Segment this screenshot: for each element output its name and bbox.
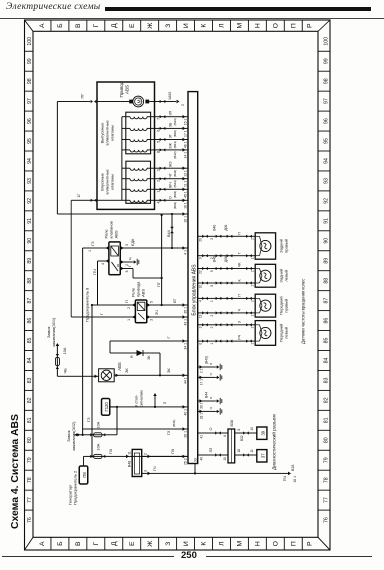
svg-text:99: 99	[27, 58, 33, 64]
wire Г120 to control unit pin 40	[110, 406, 188, 408]
svg-text:Предохранитель 2: Предохранитель 2	[73, 470, 78, 505]
solenoid coil L1	[130, 150, 147, 152]
ground G3	[215, 376, 217, 378]
svg-text:ABS: ABS	[114, 230, 119, 238]
svg-text:Е: Е	[129, 23, 136, 28]
svg-text:М: М	[237, 23, 244, 29]
wire sensor B3 lead 2	[198, 282, 256, 284]
svg-text:З: З	[165, 542, 172, 546]
svg-text:81: 81	[324, 417, 330, 423]
svg-text:Н: Н	[255, 541, 262, 546]
svg-text:9: 9	[199, 257, 203, 259]
svg-text:84: 84	[27, 357, 33, 363]
svg-text:1: 1	[88, 250, 92, 252]
svg-text:ЧГ: ЧГ	[169, 173, 173, 177]
wire sensor B3 lead 1	[198, 268, 256, 270]
svg-text:В38: В38	[230, 420, 234, 426]
svg-text:В44: В44	[205, 392, 209, 398]
svg-text:ЕГ: ЕГ	[173, 298, 177, 303]
wire valve relay pin 2 to ground	[120, 261, 132, 263]
svg-text:84: 84	[324, 357, 330, 363]
svg-text:РЧ: РЧ	[238, 334, 242, 339]
svg-text:44 1: 44 1	[184, 377, 188, 384]
solenoid coil L5	[130, 200, 147, 202]
svg-text:ЗК: ЗК	[166, 368, 171, 373]
ground G2	[215, 366, 217, 368]
wire 1Г rail to pump relay pin 1	[71, 316, 135, 318]
svg-text:ПГ: ПГ	[80, 93, 85, 99]
svg-text:ч: ч	[209, 407, 213, 409]
svg-text:К: К	[201, 542, 208, 546]
svg-text:100: 100	[324, 37, 330, 46]
svg-text:2: 2	[157, 180, 161, 182]
svg-text:Ж: Ж	[147, 540, 154, 547]
wire ГЗ branch to control unit pin 26	[83, 428, 188, 430]
solenoid coil L3	[130, 128, 147, 130]
wheel speed sensor B4 (Задний правый)	[255, 233, 275, 259]
svg-text:8: 8	[237, 429, 241, 431]
wire ПЧ to valve relay pin 4	[98, 260, 109, 262]
wire В38 to connector 37	[235, 454, 257, 456]
svg-text:Е: Е	[129, 541, 136, 546]
svg-text:В32: В32	[240, 435, 244, 441]
wire solenoid L2 to pin	[147, 139, 188, 141]
svg-text:ч: ч	[209, 363, 213, 365]
ground G1	[132, 261, 134, 263]
svg-text:Схема 4. Система ABS: Схема 4. Система ABS	[10, 414, 21, 529]
svg-text:А: А	[39, 541, 46, 546]
wire О control unit pin 41 to В38	[198, 432, 228, 434]
svg-text:правый: правый	[283, 299, 288, 313]
svg-text:3: 3	[144, 470, 148, 472]
wheel speed sensor B3 (Задний левый)	[255, 264, 275, 287]
svg-text:34 1: 34 1	[184, 343, 188, 350]
svg-text:16 1: 16 1	[184, 202, 188, 209]
wire Ч to ground G2	[198, 366, 215, 368]
svg-text:11: 11	[250, 449, 254, 453]
svg-text:ЗП: ЗП	[169, 110, 173, 115]
svg-text:13 1: 13 1	[184, 170, 188, 177]
svg-text:А: А	[39, 23, 46, 28]
svg-text:78: 78	[324, 477, 330, 483]
svg-text:клапаны: клапаны	[110, 174, 115, 190]
solenoid coil L4	[130, 117, 147, 119]
svg-text:3: 3	[210, 238, 214, 240]
wire ПЧ В48 to control unit pin 25	[142, 455, 188, 457]
wire ПГ pump feed	[91, 100, 97, 103]
svg-text:В44: В44	[167, 230, 171, 237]
svg-text:4 1: 4 1	[184, 250, 188, 255]
svg-text:4: 4	[157, 202, 161, 204]
svg-text:1: 1	[157, 191, 161, 193]
solenoid coil L8	[130, 168, 147, 170]
svg-text:Д: Д	[111, 541, 118, 546]
page header	[6, 2, 101, 12]
svg-text:ПЧ: ПЧ	[92, 269, 97, 275]
svg-text:ГЗ: ГЗ	[90, 241, 95, 246]
svg-text:99: 99	[324, 58, 330, 64]
wire solenoid L7 to pin	[147, 178, 188, 180]
wire Ч to ground G3	[198, 376, 215, 378]
svg-text:10А: 10А	[97, 421, 101, 428]
svg-text:96: 96	[324, 118, 330, 124]
wire sensor B4 lead 1	[198, 235, 256, 237]
svg-text:91: 91	[27, 218, 33, 224]
svg-text:90: 90	[324, 238, 330, 244]
wire valve relay pin 3 to control unit pin 4	[120, 247, 188, 249]
svg-text:И: И	[183, 541, 190, 546]
svg-text:К стоп-: К стоп-	[135, 394, 139, 407]
connector В48	[132, 449, 142, 476]
svg-text:ЧБ: ЧБ	[63, 368, 68, 374]
pump motor M1	[133, 96, 144, 107]
wire solenoid L5 to pin	[147, 199, 188, 201]
svg-text:ЗБ: ЗБ	[169, 122, 173, 127]
wire П to pump relay pin 2	[92, 304, 135, 306]
wire pump relay pin 5 to control unit pin 35	[147, 304, 188, 306]
svg-text:Ч: Ч	[238, 308, 242, 311]
wire sensor B4 lead 2	[198, 255, 256, 257]
svg-text:Г: Г	[93, 542, 100, 546]
svg-text:11 1: 11 1	[184, 181, 188, 187]
wire Ч to ground G5	[198, 410, 215, 412]
svg-text:16 1: 16 1	[293, 476, 297, 483]
svg-text:(В43): (В43)	[172, 420, 176, 427]
fuse F3 10А	[90, 455, 105, 458]
svg-text:11: 11	[128, 451, 132, 455]
svg-text:З: З	[238, 321, 242, 323]
svg-text:80: 80	[324, 437, 330, 443]
wire ГЧ В48 to diagnostic В18	[142, 472, 288, 474]
fuse 8 feed label (Предохранитель 8)	[82, 248, 84, 435]
svg-text:2: 2	[210, 326, 214, 328]
svg-text:О: О	[273, 23, 280, 28]
svg-text:зажигания(3G1): зажигания(3G1)	[51, 317, 56, 347]
svg-text:Предохранитель 8: Предохранитель 8	[85, 287, 90, 322]
svg-text:1: 1	[127, 319, 131, 321]
svg-text:(В43): (В43)	[205, 356, 209, 364]
ground G4	[215, 400, 217, 402]
diode VD1	[137, 350, 144, 356]
svg-text:17 1: 17 1	[184, 130, 188, 137]
svg-text:ЖЧ: ЖЧ	[169, 182, 173, 188]
svg-text:1: 1	[210, 343, 214, 345]
svg-text:91: 91	[324, 218, 330, 224]
ABS actuator box (Привод ABS)	[97, 82, 155, 209]
svg-text:ЗГ: ЗГ	[169, 134, 173, 138]
svg-text:ABS: ABS	[117, 362, 122, 371]
fusible link П8	[79, 466, 88, 484]
fuse F1 10А	[56, 354, 59, 369]
svg-text:ГЧ: ГЧ	[153, 466, 157, 471]
svg-text:О: О	[209, 428, 213, 431]
svg-text:39 1: 39 1	[200, 402, 204, 408]
svg-text:5: 5	[125, 270, 129, 272]
svg-text:2: 2	[127, 307, 131, 309]
svg-text:Г: Г	[166, 336, 171, 339]
svg-text:37: 37	[261, 453, 266, 458]
svg-text:97: 97	[324, 98, 330, 104]
svg-text:95: 95	[27, 138, 33, 144]
svg-text:В18: В18	[291, 465, 295, 471]
svg-text:79: 79	[27, 457, 33, 463]
svg-text:87: 87	[27, 298, 33, 304]
svg-text:Л: Л	[219, 541, 226, 545]
svg-text:22: 22	[199, 270, 203, 274]
svg-text:В: В	[75, 23, 82, 28]
diagnostic connector В38	[228, 429, 235, 463]
svg-text:3: 3	[150, 319, 154, 321]
svg-text:94: 94	[324, 158, 330, 164]
svg-text:93: 93	[324, 178, 330, 184]
svg-text:Г120: Г120	[104, 402, 109, 412]
svg-text:ЗК: ЗК	[147, 355, 151, 360]
svg-text:16 1: 16 1	[184, 216, 188, 223]
svg-text:О: О	[273, 541, 280, 546]
svg-text:2: 2	[210, 314, 214, 316]
svg-text:89: 89	[324, 258, 330, 264]
wire sensor B1 lead 2	[198, 340, 256, 342]
svg-text:ЗК: ЗК	[124, 368, 129, 373]
svg-text:В48: В48	[128, 461, 132, 467]
svg-text:4: 4	[199, 300, 203, 302]
svg-text:83: 83	[324, 377, 330, 383]
svg-text:ЗЧ: ЗЧ	[155, 310, 159, 315]
svg-text:Г: Г	[238, 252, 242, 254]
svg-text:Диагностический разъем: Диагностический разъем	[271, 414, 278, 470]
svg-text:1Г: 1Г	[77, 194, 81, 198]
svg-text:ЛЗ: ЛЗ	[209, 447, 213, 452]
svg-text:88: 88	[324, 278, 330, 284]
svg-text:8: 8	[157, 151, 161, 153]
frame corner diagonals	[25, 20, 331, 550]
svg-text:сигналам: сигналам	[140, 390, 144, 407]
svg-text:3: 3	[125, 244, 129, 246]
border frame inner rectangle	[33, 31, 318, 537]
svg-text:M: M	[136, 99, 141, 103]
svg-text:82: 82	[324, 397, 330, 403]
svg-text:2 1: 2 1	[200, 368, 204, 373]
svg-text:З: З	[165, 24, 172, 28]
svg-text:В46: В46	[213, 225, 217, 231]
wire Г valve relay pin 5 to ПГ branch	[120, 268, 133, 270]
svg-text:Г: Г	[100, 313, 104, 315]
svg-text:18: 18	[237, 449, 241, 453]
svg-text:96: 96	[27, 118, 33, 124]
svg-text:Н: Н	[255, 23, 262, 28]
svg-text:76: 76	[27, 517, 33, 523]
ABS control unit U1 (Блок управления ABS)	[188, 92, 198, 464]
connector Г120	[102, 399, 110, 416]
svg-text:46 1: 46 1	[184, 141, 188, 148]
svg-text:(В43): (В43)	[173, 141, 177, 148]
svg-text:100: 100	[27, 37, 33, 46]
svg-text:Д06: Д06	[224, 256, 228, 262]
svg-text:ABS: ABS	[141, 289, 146, 297]
svg-text:3: 3	[199, 326, 203, 328]
svg-text:10: 10	[250, 427, 254, 431]
ABS warning lamp H1	[99, 369, 115, 382]
connector block 37	[257, 450, 267, 462]
svg-text:82: 82	[27, 397, 33, 403]
svg-text:П: П	[238, 232, 242, 235]
wire pump motor to connector 1А92	[97, 101, 129, 103]
svg-text:Б: Б	[57, 541, 64, 546]
svg-text:З: З	[163, 401, 167, 404]
svg-text:Г: Г	[93, 24, 100, 28]
wire ГЗ to valve relay pin 1	[83, 247, 109, 249]
svg-text:ЧК: ЧК	[238, 262, 242, 267]
svg-text:Д06: Д06	[224, 225, 228, 231]
svg-text:2: 2	[210, 257, 214, 259]
svg-text:Г: Г	[128, 265, 132, 267]
wire ПГ branch to pump relay feed	[161, 215, 163, 305]
svg-text:81: 81	[27, 417, 33, 423]
wire solenoid L8 to pin	[147, 167, 188, 169]
svg-text:ABS: ABS	[125, 85, 130, 94]
svg-text:2: 2	[251, 270, 255, 272]
wire ЧБ to lamp	[57, 375, 98, 377]
svg-text:(В43): (В43)	[173, 202, 177, 209]
svg-text:6: 6	[223, 435, 227, 437]
wire solenoid L6 to pin	[147, 188, 188, 190]
svg-text:Р: Р	[307, 541, 314, 546]
svg-text:35 1: 35 1	[184, 307, 188, 314]
svg-text:ЕДК: ЕДК	[131, 238, 135, 246]
svg-text:7: 7	[157, 118, 161, 120]
svg-text:Б: Б	[57, 23, 64, 28]
svg-text:90: 90	[27, 238, 33, 244]
top right thick bar	[105, 7, 371, 11]
wire sensor B2 lead 2	[198, 312, 256, 314]
solenoid coil L7	[130, 179, 147, 181]
wire П8 to fuse F3	[83, 456, 85, 466]
svg-text:П8: П8	[82, 472, 87, 478]
svg-text:39: 39	[261, 430, 266, 435]
wire ПГ drop to control unit pin 16	[57, 213, 188, 215]
fuse F2 10А	[90, 433, 105, 436]
svg-text:К: К	[238, 279, 242, 282]
svg-text:20: 20	[199, 238, 203, 242]
svg-text:левый: левый	[283, 270, 288, 282]
wire В44 branch to ПГ rail	[171, 214, 173, 248]
svg-text:83: 83	[27, 377, 33, 383]
wire fuse F2 to Г120	[116, 407, 118, 435]
ground G5	[215, 410, 217, 412]
svg-text:О: О	[169, 196, 173, 199]
svg-text:10: 10	[223, 457, 227, 461]
svg-text:П: П	[125, 300, 129, 303]
svg-text:1: 1	[251, 285, 255, 287]
svg-text:П: П	[290, 23, 297, 28]
svg-text:Д: Д	[111, 23, 118, 28]
svg-text:(В44): (В44)	[173, 180, 177, 187]
wire solenoid L1 to pin	[147, 149, 188, 151]
valve relay K1 (Реле клапанов ABS)	[109, 242, 120, 275]
wire 1Г solenoid common feed	[91, 199, 97, 202]
wire sensor B1 lead 1	[198, 324, 256, 326]
diode VD1 branch	[109, 341, 111, 353]
svg-text:5: 5	[210, 285, 214, 287]
svg-text:87: 87	[324, 298, 330, 304]
svg-text:1: 1	[251, 257, 255, 259]
wire sensor B2 lead 1	[198, 297, 256, 299]
wire ЗК lamp to control unit pin 44	[114, 374, 188, 376]
svg-text:(В43): (В43)	[173, 191, 177, 198]
svg-text:клапаны: клапаны	[110, 125, 115, 141]
svg-text:97: 97	[27, 98, 33, 104]
svg-text:ч: ч	[209, 373, 213, 375]
page number 250	[181, 550, 197, 561]
svg-text:25 2: 25 2	[184, 458, 188, 465]
solenoid coil L2	[130, 140, 147, 142]
svg-text:ПЧ: ПЧ	[171, 448, 175, 454]
svg-text:89: 89	[27, 258, 33, 264]
svg-text:77: 77	[27, 497, 33, 503]
intake solenoid valves group (Впускные эл/магнитные клапаны)	[126, 161, 151, 203]
svg-text:3: 3	[157, 169, 161, 171]
svg-text:ЗЖ: ЗЖ	[169, 143, 173, 149]
svg-text:95: 95	[324, 138, 330, 144]
svg-text:6: 6	[157, 130, 161, 132]
svg-text:1: 1	[210, 300, 214, 302]
svg-text:4: 4	[101, 263, 105, 265]
svg-text:40 1: 40 1	[184, 409, 188, 416]
svg-text:(В43): (В43)	[173, 118, 177, 125]
svg-text:86: 86	[27, 318, 33, 324]
svg-text:80: 80	[27, 437, 33, 443]
svg-text:(В46): (В46)	[173, 130, 177, 137]
svg-text:2: 2	[251, 238, 255, 240]
svg-text:правый: правый	[283, 239, 288, 253]
svg-text:(В44): (В44)	[173, 170, 177, 177]
svg-text:ГЗ: ГЗ	[167, 430, 171, 435]
svg-text:98: 98	[324, 78, 330, 84]
svg-text:П: П	[290, 541, 297, 546]
svg-text:2: 2	[251, 300, 255, 302]
svg-text:ПЧ: ПЧ	[109, 448, 113, 454]
svg-text:10А: 10А	[63, 347, 67, 354]
svg-text:45 1: 45 1	[184, 191, 188, 198]
svg-text:К: К	[201, 24, 208, 28]
svg-text:Датчики частоты вращения колес: Датчики частоты вращения колес	[301, 279, 306, 344]
svg-text:2: 2	[181, 104, 185, 106]
svg-text:10А: 10А	[97, 443, 101, 450]
svg-text:76: 76	[324, 517, 330, 523]
svg-text:Р: Р	[307, 23, 314, 28]
svg-text:41: 41	[200, 435, 204, 439]
svg-text:33: 33	[194, 458, 198, 462]
svg-text:зажигания(3G2): зажигания(3G2)	[71, 421, 76, 451]
svg-text:93: 93	[27, 178, 33, 184]
svg-text:17 1: 17 1	[200, 379, 204, 385]
svg-text:92: 92	[27, 198, 33, 204]
svg-text:85: 85	[324, 338, 330, 344]
svg-text:6: 6	[199, 343, 203, 345]
connector block 39	[257, 427, 267, 439]
svg-text:92: 92	[324, 198, 330, 204]
svg-text:86: 86	[324, 318, 330, 324]
solenoid coil L6	[130, 189, 147, 191]
svg-text:ЖЗ: ЖЗ	[169, 162, 173, 167]
svg-text:33 1: 33 1	[200, 413, 204, 419]
wire pump relay pin 3 to control unit	[147, 316, 188, 318]
svg-text:ГЗ: ГЗ	[86, 417, 91, 422]
svg-text:1: 1	[251, 314, 255, 316]
wheel speed sensor B2 (Передний правый)	[255, 294, 275, 317]
svg-text:40: 40	[200, 457, 204, 461]
svg-text:1: 1	[251, 343, 255, 345]
